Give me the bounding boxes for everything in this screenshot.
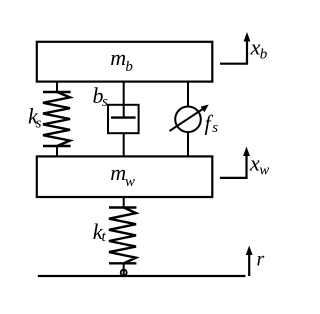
svg-text:b: b [125, 59, 133, 75]
arrow r [246, 246, 265, 277]
damper b_s [93, 81, 139, 157]
wire from m_b to spring k_s [56, 81, 58, 92]
svg-text:w: w [125, 174, 135, 190]
svg-text:m: m [110, 45, 126, 70]
spring k_s [28, 81, 71, 157]
wire from m_b to damper piston rod [123, 81, 125, 118]
wire from spring k_t to ground contact [123, 263, 125, 276]
wire from spring k_s to m_w [56, 146, 58, 157]
mass block m_w [37, 156, 213, 197]
wire from damper cylinder to m_w [123, 133, 125, 157]
arrow x_w [220, 147, 269, 179]
diagonal arrow of actuator [170, 109, 204, 132]
wire from m_w to spring k_t [123, 197, 125, 208]
arrow x_b [220, 32, 268, 64]
svg-text:m: m [110, 160, 126, 185]
svg-text:w: w [259, 163, 269, 179]
svg-text:r: r [257, 249, 265, 271]
spring k_t [93, 197, 137, 276]
svg-text:s: s [102, 94, 108, 110]
svg-text:s: s [36, 115, 42, 131]
mass block m_b [37, 42, 213, 82]
node: road contact circle [121, 270, 127, 276]
svg-text:b: b [260, 47, 268, 63]
svg-text:t: t [102, 229, 107, 245]
svg-text:s: s [212, 120, 218, 136]
actuator f_s [170, 81, 219, 157]
wire from actuator to m_w [187, 132, 189, 157]
wire from m_b to actuator [187, 81, 189, 107]
ground (road) line [38, 275, 246, 277]
